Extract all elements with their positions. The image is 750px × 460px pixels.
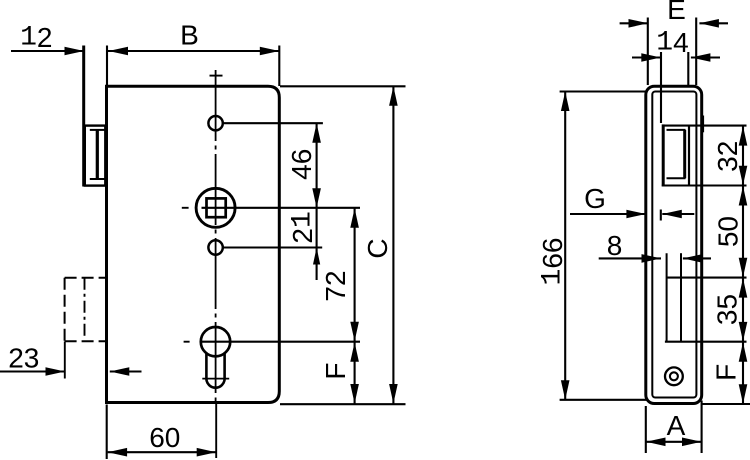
extension line A right: [701, 401, 703, 454]
dimension 32 line: [739, 126, 748, 186]
dimension 12 line and arrow: [11, 47, 84, 56]
extension line body left bottom: [106, 405, 108, 460]
square spindle 9mm: [207, 198, 226, 217]
extension line G: [660, 210, 662, 221]
fastening slot right edge: [680, 253, 682, 342]
faceplate inner outline: [652, 92, 696, 398]
latch cutout top edge + 32 leader: [662, 125, 747, 127]
slot step leader 50/35: [667, 277, 747, 279]
dimension F label right view: [711, 364, 742, 381]
dimension A label: [667, 410, 686, 441]
dimension 32 label: [712, 141, 743, 172]
svg-text:32: 32: [712, 141, 743, 172]
dimension G label: [584, 183, 606, 214]
dimension 72 label: [320, 270, 351, 301]
svg-text:21: 21: [287, 211, 318, 243]
hidden dead bolt (dashed): [65, 278, 106, 342]
svg-text:F: F: [320, 362, 351, 379]
svg-text:F: F: [711, 364, 742, 381]
svg-text:166: 166: [537, 238, 568, 286]
dimension F line right view: [739, 342, 748, 404]
leader line lower hole: [223, 246, 322, 248]
svg-text:A: A: [667, 410, 686, 441]
dimension 46 label: [286, 149, 317, 180]
latch cutout lip top: [667, 129, 686, 131]
dimension 14 label: [656, 27, 688, 58]
svg-text:C: C: [362, 238, 393, 258]
svg-text:46: 46: [286, 149, 317, 180]
latch cutout thick left edge: [662, 124, 665, 186]
faceplate edge line left view: [82, 46, 85, 187]
svg-text:50: 50: [713, 216, 744, 247]
dimension 8 line: [599, 254, 711, 263]
dimension B label: [180, 20, 199, 51]
bottom edge extension right: [280, 403, 406, 405]
latch bolt side view: [85, 126, 106, 186]
dimension 14 line: [632, 53, 720, 62]
dimension C line: [389, 86, 398, 403]
dimension 60 label: [149, 422, 180, 453]
dimension E label: [667, 0, 686, 25]
svg-text:35: 35: [712, 294, 743, 325]
dimension F label left view: [320, 362, 351, 379]
extension line E left: [647, 18, 649, 86]
latch cutout bottom edge + leader: [662, 184, 747, 186]
faceplate outer outline: [646, 86, 702, 403]
dimension C label: [362, 238, 393, 258]
dimension 35 line: [739, 278, 748, 342]
upper screw hole: [208, 116, 222, 130]
dimension 50 line: [739, 186, 748, 278]
svg-text:8: 8: [607, 230, 623, 261]
dimension E line: [620, 19, 728, 28]
leader line upper hole: [223, 122, 323, 124]
faceplate dash-dot line through dead bolt: [84, 278, 86, 340]
centerline extension below body: [215, 402, 217, 458]
dimension 23 line left part: [0, 367, 65, 376]
dimension 21 label: [287, 211, 318, 243]
top edge extension right: [280, 85, 406, 87]
svg-text:72: 72: [320, 270, 351, 301]
166 bottom leader: [560, 399, 647, 401]
bottom right leader: [702, 403, 750, 405]
fastening slot left edge: [666, 253, 668, 342]
svg-text:G: G: [584, 183, 606, 214]
svg-text:60: 60: [149, 422, 180, 453]
screw hole faceplate: [665, 367, 683, 385]
extension line 14 right: [687, 52, 689, 86]
dimension 50 label: [713, 216, 744, 247]
dimension A line: [646, 438, 702, 447]
extension line A left: [645, 406, 647, 453]
166 top leader: [560, 90, 647, 92]
follower (spindle) hole: [196, 188, 235, 227]
dimension 35 label: [712, 294, 743, 325]
extension line for 23 dim: [64, 342, 66, 379]
svg-text:B: B: [180, 20, 199, 51]
slot bottom leader 35/F: [665, 341, 747, 343]
extension line body left top: [106, 46, 108, 87]
leader line cylinder: [201, 341, 360, 343]
extension line body right top: [278, 46, 280, 87]
dimension 21 line: [313, 208, 320, 280]
centerline top tick: [210, 75, 223, 77]
vertical centerline of holes: [215, 70, 217, 402]
extension line E right: [695, 18, 697, 86]
dimension B line: [107, 47, 279, 56]
leader line spindle: [202, 207, 361, 209]
latch cutout lip vertical: [683, 130, 686, 178]
svg-text:E: E: [667, 0, 686, 25]
euro profile cylinder hole: [201, 327, 230, 388]
latch head edge bump: [702, 116, 704, 133]
cylinder centerline tick left: [184, 341, 190, 343]
lock case body outline: [107, 86, 280, 402]
dimension 60 line: [108, 448, 217, 457]
dimension G line: [570, 210, 694, 219]
spindle centerline tick left: [182, 207, 189, 209]
extension line 14 left: [660, 52, 662, 123]
latch cutout lip bottom: [667, 177, 686, 179]
dimension 166 line: [561, 92, 570, 400]
lower screw hole: [208, 240, 222, 254]
dimension 46 line: [312, 123, 321, 208]
latch cutout right edge: [688, 125, 690, 186]
dimension 8 label: [607, 230, 623, 261]
dimension F line left view: [350, 342, 359, 404]
dimension 166 label: [537, 238, 568, 286]
dimension 23 label: [8, 343, 39, 374]
dimension 23 arrow right part: [110, 367, 142, 376]
dimension 12 label: [20, 22, 52, 53]
svg-text:12: 12: [20, 22, 52, 53]
svg-text:23: 23: [8, 343, 39, 374]
dimension 72 line: [350, 208, 359, 342]
